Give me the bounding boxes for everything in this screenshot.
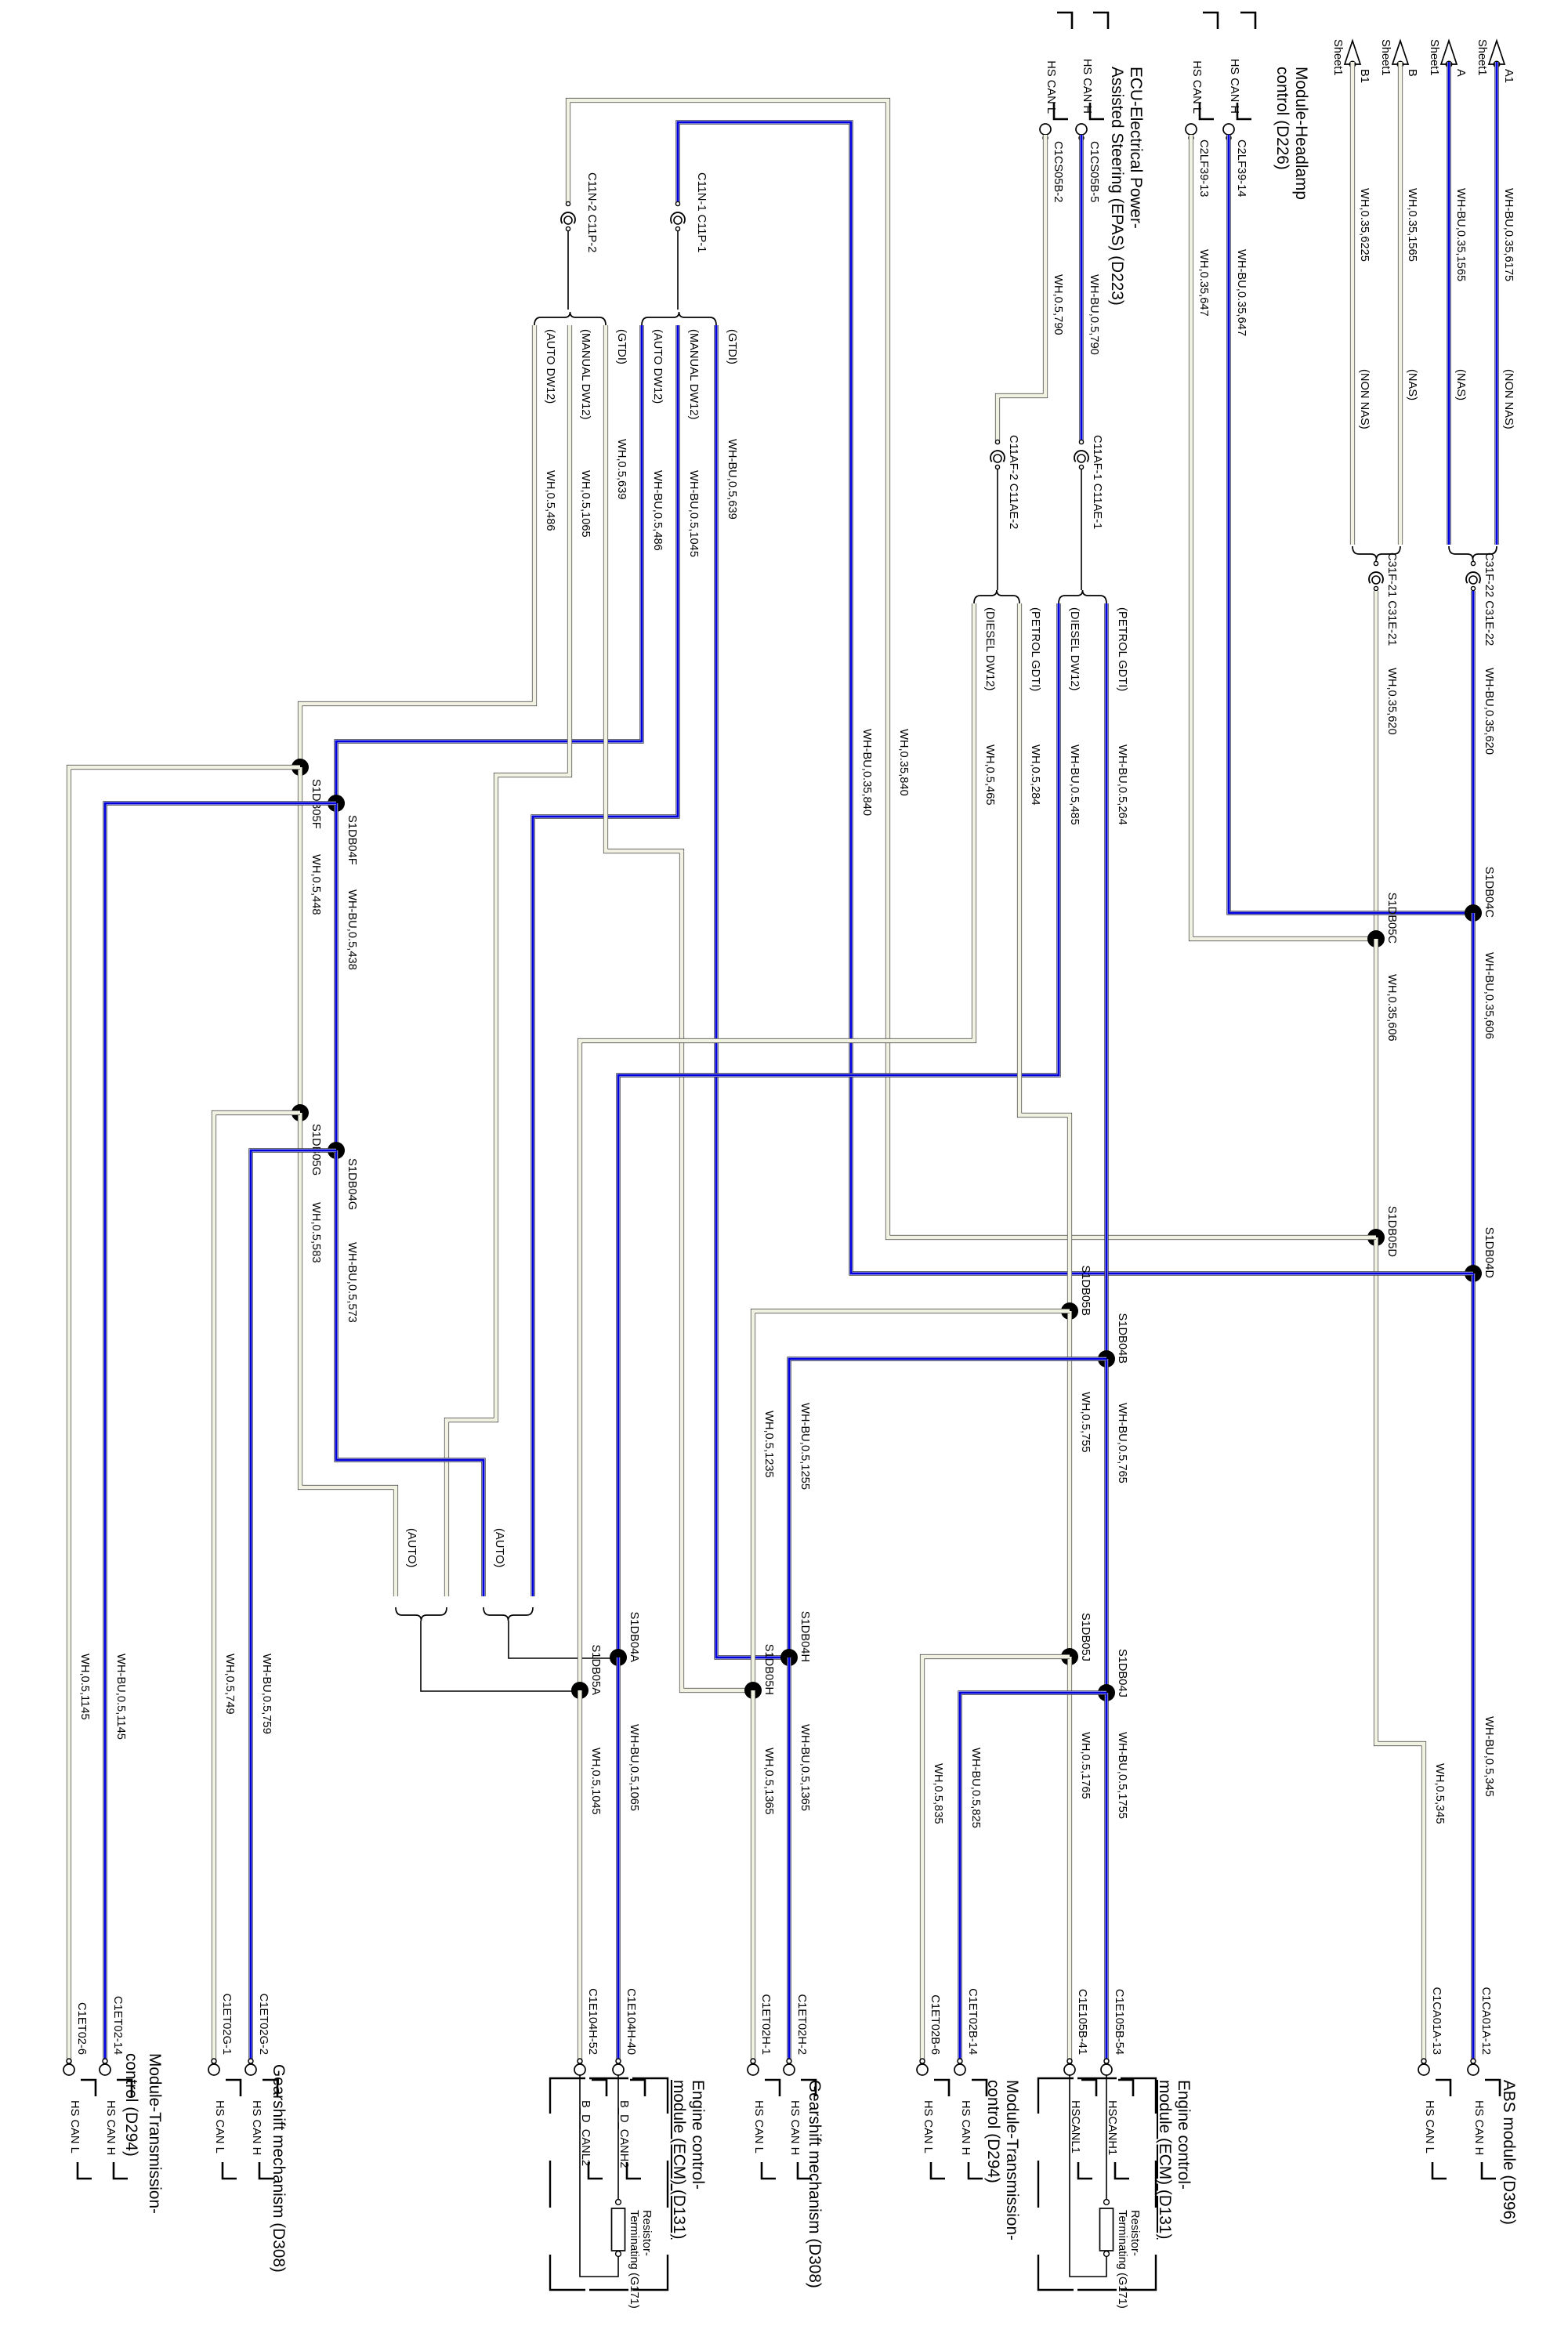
splice S1DB05J — [1061, 1613, 1092, 1665]
svg-text:Sheet1: Sheet1 — [1428, 39, 1440, 76]
wire WH,0.5,755 S1DB05B to S1DB05J — [1070, 1311, 1092, 1657]
splice S1DB04H — [780, 1611, 811, 1666]
svg-text:Sheet1: Sheet1 — [1379, 39, 1392, 76]
splice S1DB04G — [328, 1142, 358, 1210]
svg-text:HS CAN L: HS CAN L — [1045, 60, 1057, 114]
svg-text:HS CAN L: HS CAN L — [213, 2100, 226, 2154]
svg-text:(MANUAL DW12): (MANUAL DW12) — [687, 329, 700, 419]
svg-text:control (D294): control (D294) — [122, 2053, 140, 2157]
connector C1ET02G-2 — [245, 1994, 270, 2075]
pin label HS CAN L (D294 right) — [922, 2080, 949, 2179]
connector C1ET02H-1 — [748, 1994, 772, 2075]
svg-text:HS CAN H: HS CAN H — [1228, 59, 1240, 114]
pin label HS CAN H (D226) — [1228, 13, 1255, 119]
svg-text:HS CAN H: HS CAN H — [788, 2100, 801, 2155]
svg-text:S1DB04F: S1DB04F — [346, 815, 358, 865]
svg-text:WH,0.5,1235: WH,0.5,1235 — [762, 1411, 775, 1478]
connector C1ET02-14 — [100, 1996, 124, 2075]
svg-text:WH,0.5,583: WH,0.5,583 — [310, 1202, 322, 1263]
splice S1DB05C — [1367, 893, 1398, 947]
svg-text:Terminating (G171): Terminating (G171) — [628, 2210, 640, 2309]
connector C1E105B-41 — [1064, 1989, 1088, 2075]
off-sheet arrow B1 (Sheet1) — [1331, 39, 1371, 83]
wire WH,0.5,1045 S1DB05A to ECM B_D_CANL2 — [580, 1690, 602, 2070]
brace splitting EPAS CAN L petrol/diesel — [974, 590, 1019, 603]
wire WH-BU,0.5,1145 S1DB04F branch to C1ET02-14 — [105, 803, 336, 2070]
svg-text:(AUTO): (AUTO) — [405, 1528, 418, 1567]
svg-text:C2LF39-13: C2LF39-13 — [1197, 139, 1210, 197]
svg-text:WH-BU,0.35,840: WH-BU,0.35,840 — [860, 729, 873, 816]
pin label HS CAN H (D223) — [1081, 13, 1108, 119]
svg-text:WH,0.5,486: WH,0.5,486 — [544, 470, 556, 531]
svg-text:C1E104H-52: C1E104H-52 — [586, 1988, 599, 2055]
svg-text:HS CAN L: HS CAN L — [68, 2100, 81, 2154]
svg-text:Gearshift mechanism (D308): Gearshift mechanism (D308) — [806, 2080, 824, 2288]
svg-text:WH-BU,0.5,1045: WH-BU,0.5,1045 — [687, 470, 700, 557]
wire CAN L AUTO merge to S1DB05A — [421, 1621, 580, 1691]
pin label B_D_CANL2 — [579, 2080, 607, 2179]
svg-text:S1DB04D: S1DB04D — [1483, 1227, 1495, 1278]
svg-text:S1DB04J: S1DB04J — [1116, 1649, 1128, 1697]
connector C1ET02-6 — [63, 2002, 88, 2075]
svg-text:WH,0.35,1565: WH,0.35,1565 — [1406, 188, 1418, 262]
pin label HS CAN L (D308 left) — [213, 2080, 241, 2179]
svg-text:B1: B1 — [1358, 69, 1371, 83]
svg-text:module (ECM) (D131): module (ECM) (D131) — [1156, 2080, 1174, 2239]
connector C1ET02H-2 — [784, 1994, 808, 2075]
connector C11AF-1 C11AE-1 — [1074, 435, 1103, 529]
svg-text:WH-BU,0.5,1145: WH-BU,0.5,1145 — [114, 1654, 127, 1740]
svg-text:module (ECM) (D131): module (ECM) (D131) — [670, 2080, 688, 2239]
wire (MANUAL DW12) WH-BU,0.5,1045 to AUTO brace — [533, 325, 700, 1596]
pin label HS CAN L (D396) — [1423, 2080, 1450, 2179]
wire WH-BU,0.5,1755 S1DB04J to ECM HSCANH1 — [1106, 1693, 1128, 2070]
svg-text:WH,0.5,1145: WH,0.5,1145 — [78, 1654, 91, 1720]
svg-text:WH,0.35,6225: WH,0.35,6225 — [1358, 188, 1371, 262]
svg-text:WH-BU,0.35,606: WH-BU,0.35,606 — [1483, 952, 1495, 1039]
pin label HS CAN L (D226) — [1190, 13, 1218, 119]
svg-text:HS CAN H: HS CAN H — [959, 2100, 972, 2155]
wire CAN H C11AE-1 to petrol/diesel brace — [1081, 469, 1082, 590]
wire WH,0.5,1235 S1DB05B branch to S1DB05H — [753, 1311, 1070, 1690]
svg-text:control (D226): control (D226) — [1273, 67, 1291, 170]
pin label HS CAN H (D308 right) — [788, 2080, 816, 2179]
svg-text:Terminating (G171): Terminating (G171) — [1116, 2210, 1128, 2309]
svg-text:C1E104H-40: C1E104H-40 — [625, 1988, 637, 2055]
wire WH,0.5,749 S1DB05G branch to C1ET02G-1 — [214, 1113, 300, 2070]
svg-text:C1CA01A-12: C1CA01A-12 — [1479, 1987, 1492, 2055]
svg-text:HS CAN H: HS CAN H — [1081, 59, 1093, 114]
wire WH,0.5,448 S1DB05F to S1DB05G — [300, 767, 322, 1113]
svg-text:S1DB05A: S1DB05A — [589, 1644, 602, 1695]
svg-text:WH-BU,0.5,485: WH-BU,0.5,485 — [1068, 744, 1081, 825]
pin label B_D_CANH2 — [617, 2080, 645, 2179]
wire WH,0.5,835 S1DB05J branch to C1ET02B-6 — [922, 1657, 1070, 2070]
svg-text:S1DB04H: S1DB04H — [798, 1611, 811, 1662]
svg-text:WH,0.5,749: WH,0.5,749 — [223, 1654, 236, 1715]
svg-text:(PETROL GDTI): (PETROL GDTI) — [1116, 607, 1128, 691]
svg-text:HS CAN L: HS CAN L — [752, 2100, 765, 2154]
connector C1CA01A-12 — [1468, 1987, 1492, 2075]
svg-text:(NAS): (NAS) — [1406, 369, 1418, 400]
svg-text:C1CA01A-13: C1CA01A-13 — [1430, 1987, 1443, 2055]
svg-text:C1E105B-54: C1E105B-54 — [1113, 1989, 1125, 2055]
connector C1CA01A-13 — [1418, 1987, 1443, 2075]
svg-text:C1ET02G-1: C1ET02G-1 — [220, 1994, 233, 2055]
brace splitting CAN H into GTDI/MANUAL/AUTO variants — [642, 312, 716, 325]
svg-text:C2LF39-14: C2LF39-14 — [1235, 139, 1248, 197]
module Engine control-module (ECM) (D131) left — [670, 2080, 707, 2239]
off-sheet arrow A (Sheet1) — [1428, 39, 1467, 77]
wire (DIESEL DW12) WH,0.5,465 to S1DB05A line — [580, 603, 996, 1690]
svg-text:C1ET02G-2: C1ET02G-2 — [257, 1994, 270, 2055]
module Module-Headlamp control (D226) — [1273, 67, 1310, 200]
wire CAN L C11P-2 to variant brace — [567, 230, 569, 310]
wire (PETROL GDTI) WH,0.5,284 to S1DB05B — [1019, 603, 1070, 1311]
wire WH-BU,0.35,606 CAN H bus S1DB04C to S1DB04D — [1473, 913, 1495, 1273]
resistor Resistor-Terminating (G171) in ECM left — [580, 2075, 653, 2309]
pin label HSCANL1 — [1069, 2080, 1096, 2179]
svg-text:(AUTO): (AUTO) — [493, 1528, 505, 1567]
wire (AUTO DW12) WH-BU,0.5,486 to S1DB04F — [336, 325, 664, 803]
brace merging B/B1 wires — [1353, 546, 1400, 560]
wire WH,0.35,840 CAN L branch S1DB05D to C11N-2 — [568, 100, 1376, 1237]
svg-text:HS CAN H: HS CAN H — [1472, 2100, 1485, 2155]
module Gearshift mechanism (D308) right — [806, 2080, 824, 2288]
svg-text:Resistor-: Resistor- — [640, 2210, 653, 2256]
svg-text:C1ET02B-6: C1ET02B-6 — [929, 1994, 941, 2055]
svg-text:WH,0.35,840: WH,0.35,840 — [897, 729, 910, 796]
svg-text:HS CAN L: HS CAN L — [922, 2100, 934, 2154]
brace merging AUTO CAN H wires — [483, 1607, 533, 1621]
svg-text:C1ET02H-1: C1ET02H-1 — [759, 1994, 772, 2055]
svg-text:WH-BU,0.35,647: WH-BU,0.35,647 — [1235, 249, 1248, 336]
svg-text:C1CS05B-2: C1CS05B-2 — [1052, 141, 1064, 202]
wire WH-BU,0.35,620 CAN H bus to S1DB04C — [1473, 591, 1495, 913]
wire WH,0.35,6225 (NON NAS) CAN L from sheet1 B1 — [1353, 62, 1371, 545]
svg-text:WH-BU,0.5,264: WH-BU,0.5,264 — [1116, 744, 1128, 825]
svg-text:(NON NAS): (NON NAS) — [1502, 369, 1515, 429]
pin label HS CAN H (D308 left) — [250, 2080, 277, 2179]
wire WH,0.5,583 (AUTO) S1DB05G to AUTO brace — [300, 1113, 418, 1596]
svg-text:(NAS): (NAS) — [1454, 369, 1467, 400]
svg-text:WH-BU,0.35,1565: WH-BU,0.35,1565 — [1454, 188, 1467, 281]
svg-text:Engine control-: Engine control- — [1175, 2080, 1193, 2190]
svg-text:WH-BU,0.5,759: WH-BU,0.5,759 — [260, 1654, 273, 1734]
svg-text:WH,0.5,345: WH,0.5,345 — [1433, 1763, 1446, 1824]
svg-text:ECU-Electrical Power-: ECU-Electrical Power- — [1127, 67, 1145, 229]
splice S1DB04J — [1098, 1649, 1128, 1701]
module Gearshift mechanism (D308) left — [270, 2064, 288, 2273]
wire WH-BU,0.35,840 CAN H branch S1DB04D to C11N-1 — [678, 122, 1473, 1273]
svg-text:WH,0.5,1365: WH,0.5,1365 — [762, 1748, 775, 1815]
brace splitting CAN L into GTDI/MANUAL/AUTO variants — [534, 312, 606, 325]
svg-text:WH-BU,0.5,438: WH-BU,0.5,438 — [346, 889, 358, 970]
svg-text:(MANUAL DW12): (MANUAL DW12) — [579, 329, 592, 419]
svg-text:Gearshift mechanism (D308): Gearshift mechanism (D308) — [270, 2064, 288, 2273]
svg-text:S1DB05H: S1DB05H — [762, 1644, 775, 1695]
svg-text:C1CS05B-5: C1CS05B-5 — [1088, 141, 1100, 202]
svg-text:C11N-2 C11P-2: C11N-2 C11P-2 — [585, 172, 598, 252]
svg-text:(AUTO DW12): (AUTO DW12) — [651, 329, 664, 404]
svg-text:Resistor-: Resistor- — [1128, 2210, 1141, 2256]
svg-text:S1DB04B: S1DB04B — [1116, 1313, 1128, 1364]
wire CAN L C11AE-2 to petrol/diesel brace — [997, 469, 998, 590]
svg-text:B_D_CANL2: B_D_CANL2 — [579, 2100, 592, 2166]
svg-text:A1: A1 — [1502, 69, 1515, 83]
svg-text:S1DB05B: S1DB05B — [1079, 1265, 1092, 1316]
svg-text:WH,0.35,620: WH,0.35,620 — [1385, 668, 1398, 735]
connector C31F-22 C31E-22 — [1466, 552, 1495, 646]
svg-text:WH-BU,0.5,765: WH-BU,0.5,765 — [1116, 1403, 1128, 1483]
svg-text:Sheet1: Sheet1 — [1331, 39, 1344, 76]
splice S1DB04B — [1098, 1313, 1128, 1367]
svg-text:(NON NAS): (NON NAS) — [1358, 369, 1371, 429]
wire (PETROL GDTI) WH-BU,0.5,264 to S1DB04B — [1106, 603, 1128, 1359]
module Module-Transmission-control (D294) right — [984, 2080, 1021, 2241]
wire CAN H C11P-1 to variant brace — [677, 230, 679, 310]
svg-text:(DIESEL DW12): (DIESEL DW12) — [1068, 607, 1081, 690]
pin label HS CAN L (D294 left) — [68, 2080, 96, 2179]
svg-text:C11AF-2 C11AE-2: C11AF-2 C11AE-2 — [1007, 435, 1019, 529]
wire WH-BU,0.5,1365 S1DB04H to C1ET02H-2 — [789, 1657, 811, 2070]
splice S1DB05B — [1061, 1265, 1092, 1320]
splice S1DB04C — [1465, 867, 1495, 922]
svg-text:C31F-21 C31E-21: C31F-21 C31E-21 — [1385, 552, 1398, 646]
connector C1ET02B-6 — [917, 1994, 941, 2075]
svg-text:C1ET02B-14: C1ET02B-14 — [966, 1988, 979, 2055]
svg-text:Sheet1: Sheet1 — [1476, 39, 1488, 76]
pin label HS CAN L (D223) — [1045, 13, 1072, 119]
svg-text:S1DB05J: S1DB05J — [1079, 1613, 1092, 1661]
wire (GTDI) WH-BU,0.5,639 to S1DB04H — [716, 325, 789, 1657]
wire WH,0.35,1565 (NAS) CAN L from sheet1 B — [1400, 62, 1418, 545]
svg-text:Module-Transmission-: Module-Transmission- — [146, 2053, 164, 2214]
svg-text:WH-BU,0.5,1755: WH-BU,0.5,1755 — [1116, 1732, 1128, 1819]
wire WH-BU,0.35,1565 (NAS) CAN H from sheet1 A — [1449, 62, 1467, 545]
connector C2LF39-13 — [1186, 124, 1210, 197]
svg-text:B: B — [1406, 69, 1418, 77]
connector C11N-1 C11P-1 — [671, 172, 708, 252]
wire WH,0.5,1365 S1DB05H to C1ET02H-1 — [753, 1690, 775, 2070]
svg-text:WH,0.5,790: WH,0.5,790 — [1052, 274, 1064, 335]
splice S1DB05H — [744, 1644, 775, 1699]
svg-text:WH-BU,0.5,1255: WH-BU,0.5,1255 — [798, 1403, 811, 1490]
connector C1E105B-54 — [1101, 1989, 1125, 2075]
wire WH-BU,0.5,573 (AUTO) S1DB04G to AUTO brace — [336, 1150, 505, 1596]
svg-text:C1ET02-14: C1ET02-14 — [111, 1996, 124, 2055]
svg-text:Module-Headlamp: Module-Headlamp — [1292, 67, 1310, 200]
brace merging A1/A wires — [1449, 546, 1497, 560]
svg-text:WH-BU,0.5,790: WH-BU,0.5,790 — [1088, 274, 1100, 355]
dashed box ECM (D131) right — [1038, 2078, 1156, 2290]
svg-text:WH,0.5,465: WH,0.5,465 — [983, 744, 996, 806]
svg-text:HS CAN L: HS CAN L — [1423, 2100, 1436, 2154]
wire (GTDI) WH,0.5,639 to S1DB05H — [606, 325, 753, 1690]
pin label HS CAN L (D308 right) — [752, 2080, 780, 2179]
svg-text:WH,0.35,606: WH,0.35,606 — [1385, 974, 1398, 1041]
splice S1DB05F — [292, 759, 322, 829]
svg-text:WH-BU,0.5,639: WH-BU,0.5,639 — [726, 439, 738, 520]
pin label HS CAN H (D294 right) — [959, 2080, 987, 2179]
svg-text:S1DB05C: S1DB05C — [1385, 893, 1398, 944]
svg-text:(PETROL GDTI): (PETROL GDTI) — [1029, 607, 1041, 691]
off-sheet arrow A1 (Sheet1) — [1476, 39, 1515, 83]
svg-text:C1E105B-41: C1E105B-41 — [1076, 1989, 1088, 2055]
svg-text:WH-BU,0.5,1065: WH-BU,0.5,1065 — [628, 1724, 640, 1811]
svg-text:WH-BU,0.35,620: WH-BU,0.35,620 — [1483, 668, 1495, 755]
connector C1CS05B-5 — [1076, 124, 1100, 202]
wire WH,0.5,1765 S1DB05J to ECM HSCANL1 — [1070, 1657, 1092, 2070]
connector C31F-21 C31E-21 — [1369, 552, 1398, 646]
svg-text:ABS module (D396): ABS module (D396) — [1500, 2080, 1518, 2225]
svg-text:WH-BU,0.5,825: WH-BU,0.5,825 — [969, 1748, 982, 1828]
svg-text:HSCANH1: HSCANH1 — [1106, 2100, 1118, 2155]
svg-text:Assisted Steering (EPAS) (D223: Assisted Steering (EPAS) (D223) — [1108, 67, 1126, 306]
pin label HS CAN H (D396) — [1472, 2080, 1500, 2179]
svg-text:(GTDI): (GTDI) — [615, 329, 628, 364]
wire WH-BU,0.35,647 (headlamp HS CAN H) to S1DB04C — [1229, 135, 1473, 913]
wire WH-BU,0.5,759 S1DB04G branch to C1ET02G-2 — [251, 1150, 336, 2070]
svg-text:Module-Transmission-: Module-Transmission- — [1003, 2080, 1021, 2241]
svg-text:A: A — [1454, 69, 1467, 77]
connector C11N-2 C11P-2 — [561, 172, 598, 252]
splice S1DB05D — [1367, 1206, 1398, 1257]
svg-text:(DIESEL DW12): (DIESEL DW12) — [983, 607, 996, 690]
wire (MANUAL DW12) WH,0.5,1065 to AUTO brace — [447, 325, 592, 1596]
wire WH,0.5,345 CAN L to ABS module — [1376, 1237, 1446, 2070]
svg-text:HS CAN L: HS CAN L — [1190, 60, 1203, 114]
svg-text:C1ET02H-2: C1ET02H-2 — [795, 1994, 808, 2055]
splice S1DB05G — [292, 1104, 322, 1175]
svg-text:WH,0.5,1065: WH,0.5,1065 — [579, 470, 592, 538]
wire WH-BU,0.5,345 CAN H to ABS module — [1473, 1273, 1495, 2070]
svg-text:WH,0.5,448: WH,0.5,448 — [310, 854, 322, 915]
wire (DIESEL DW12) WH-BU,0.5,485 to S1DB04A line — [618, 603, 1081, 1657]
module ABS module (D396) — [1500, 2080, 1518, 2225]
connector C11AF-2 C11AE-2 — [990, 435, 1019, 529]
svg-text:WH-BU,0.5,573: WH-BU,0.5,573 — [346, 1242, 358, 1323]
dashed box ECM (D131) left — [550, 2078, 668, 2290]
brace merging AUTO CAN L wires — [396, 1607, 447, 1621]
svg-text:C31F-22 C31E-22: C31F-22 C31E-22 — [1483, 552, 1495, 646]
wire WH,0.5,790 EPAS CAN L to C11AF-2 — [998, 135, 1064, 440]
wire WH-BU,0.5,790 EPAS CAN H to C11AF-1 — [1081, 135, 1100, 440]
splice S1DB04F — [328, 795, 358, 865]
svg-text:C11AF-1 C11AE-1: C11AF-1 C11AE-1 — [1091, 435, 1103, 529]
module Engine control-module (ECM) (D131) right — [1156, 2080, 1193, 2239]
svg-text:WH-BU,0.35,6175: WH-BU,0.35,6175 — [1502, 188, 1515, 281]
svg-text:WH,0.5,755: WH,0.5,755 — [1079, 1392, 1092, 1453]
wire WH-BU,0.5,438 S1DB04F to S1DB04G — [336, 803, 358, 1150]
svg-text:WH-BU,0.5,1365: WH-BU,0.5,1365 — [798, 1724, 811, 1811]
svg-text:WH-BU,0.5,345: WH-BU,0.5,345 — [1483, 1716, 1495, 1797]
svg-text:HS CAN H: HS CAN H — [250, 2100, 263, 2155]
module Module-Transmission-control (D294) left — [122, 2053, 164, 2214]
pin label HSCANH1 — [1106, 2080, 1133, 2179]
svg-text:B_D_CANH2: B_D_CANH2 — [617, 2100, 630, 2168]
svg-text:S1DB05D: S1DB05D — [1385, 1206, 1398, 1257]
wire WH,0.35,647 (headlamp HS CAN L) to S1DB05C — [1191, 135, 1376, 939]
wire (AUTO DW12) WH,0.5,486 to S1DB05F — [300, 325, 556, 767]
brace splitting EPAS CAN H petrol/diesel — [1059, 590, 1106, 603]
svg-text:(AUTO DW12): (AUTO DW12) — [544, 329, 556, 404]
connector C1E104H-52 — [574, 1988, 599, 2075]
resistor Resistor-Terminating (G171) in ECM right — [1070, 2075, 1141, 2309]
svg-text:(GTDI): (GTDI) — [726, 329, 738, 364]
wire WH-BU,0.5,825 S1DB04J branch to C1ET02B-14 — [960, 1693, 1106, 2070]
svg-text:HSCANL1: HSCANL1 — [1069, 2100, 1081, 2154]
connector C1ET02G-1 — [208, 1994, 233, 2075]
svg-text:WH,0.5,835: WH,0.5,835 — [932, 1763, 944, 1824]
module ECU-Electrical Power-Assisted Steering (EPAS) (D223) — [1108, 67, 1145, 306]
svg-text:WH,0.5,639: WH,0.5,639 — [615, 439, 628, 500]
wire WH-BU,0.35,6175 (NON NAS) CAN H from sheet1 A1 — [1497, 62, 1515, 545]
wire WH,0.35,606 CAN L bus S1DB05C to S1DB05D — [1376, 939, 1398, 1237]
svg-text:C1ET02-6: C1ET02-6 — [75, 2002, 88, 2055]
splice S1DB04A — [610, 1611, 640, 1666]
svg-text:WH,0.5,1045: WH,0.5,1045 — [589, 1748, 602, 1815]
svg-text:WH,0.5,284: WH,0.5,284 — [1029, 744, 1041, 806]
wire WH-BU,0.5,1255 S1DB04B branch to S1DB04H — [789, 1359, 1106, 1657]
svg-text:S1DB04G: S1DB04G — [346, 1158, 358, 1210]
svg-text:C11N-1 C11P-1: C11N-1 C11P-1 — [695, 172, 708, 252]
svg-text:WH,0.5,1765: WH,0.5,1765 — [1079, 1732, 1092, 1799]
svg-text:Engine control-: Engine control- — [689, 2080, 707, 2190]
wire CAN H AUTO merge to S1DB04A — [509, 1621, 618, 1658]
connector C1E104H-40 — [613, 1988, 637, 2075]
svg-text:WH-BU,0.5,486: WH-BU,0.5,486 — [651, 470, 664, 551]
wire WH-BU,0.5,1065 S1DB04A to ECM B_D_CANH2 — [618, 1657, 640, 2070]
splice S1DB05A — [571, 1644, 602, 1699]
splice S1DB04D — [1465, 1227, 1495, 1282]
wire WH,0.35,620 CAN L bus to S1DB05C — [1376, 591, 1398, 939]
svg-text:WH,0.35,647: WH,0.35,647 — [1197, 249, 1210, 317]
off-sheet arrow B (Sheet1) — [1379, 39, 1418, 77]
pin label HS CAN H (D294 left) — [104, 2080, 132, 2179]
wire WH,0.5,1145 S1DB05F branch to C1ET02-6 — [69, 767, 300, 2070]
svg-text:HS CAN H: HS CAN H — [104, 2100, 117, 2155]
svg-text:S1DB04C: S1DB04C — [1483, 867, 1495, 918]
connector C2LF39-14 — [1223, 124, 1248, 197]
svg-text:S1DB04A: S1DB04A — [628, 1611, 640, 1662]
wire WH-BU,0.5,765 S1DB04B to S1DB04J — [1106, 1359, 1128, 1693]
connector C1ET02B-14 — [954, 1988, 979, 2075]
connector C1CS05B-2 — [1040, 124, 1064, 202]
